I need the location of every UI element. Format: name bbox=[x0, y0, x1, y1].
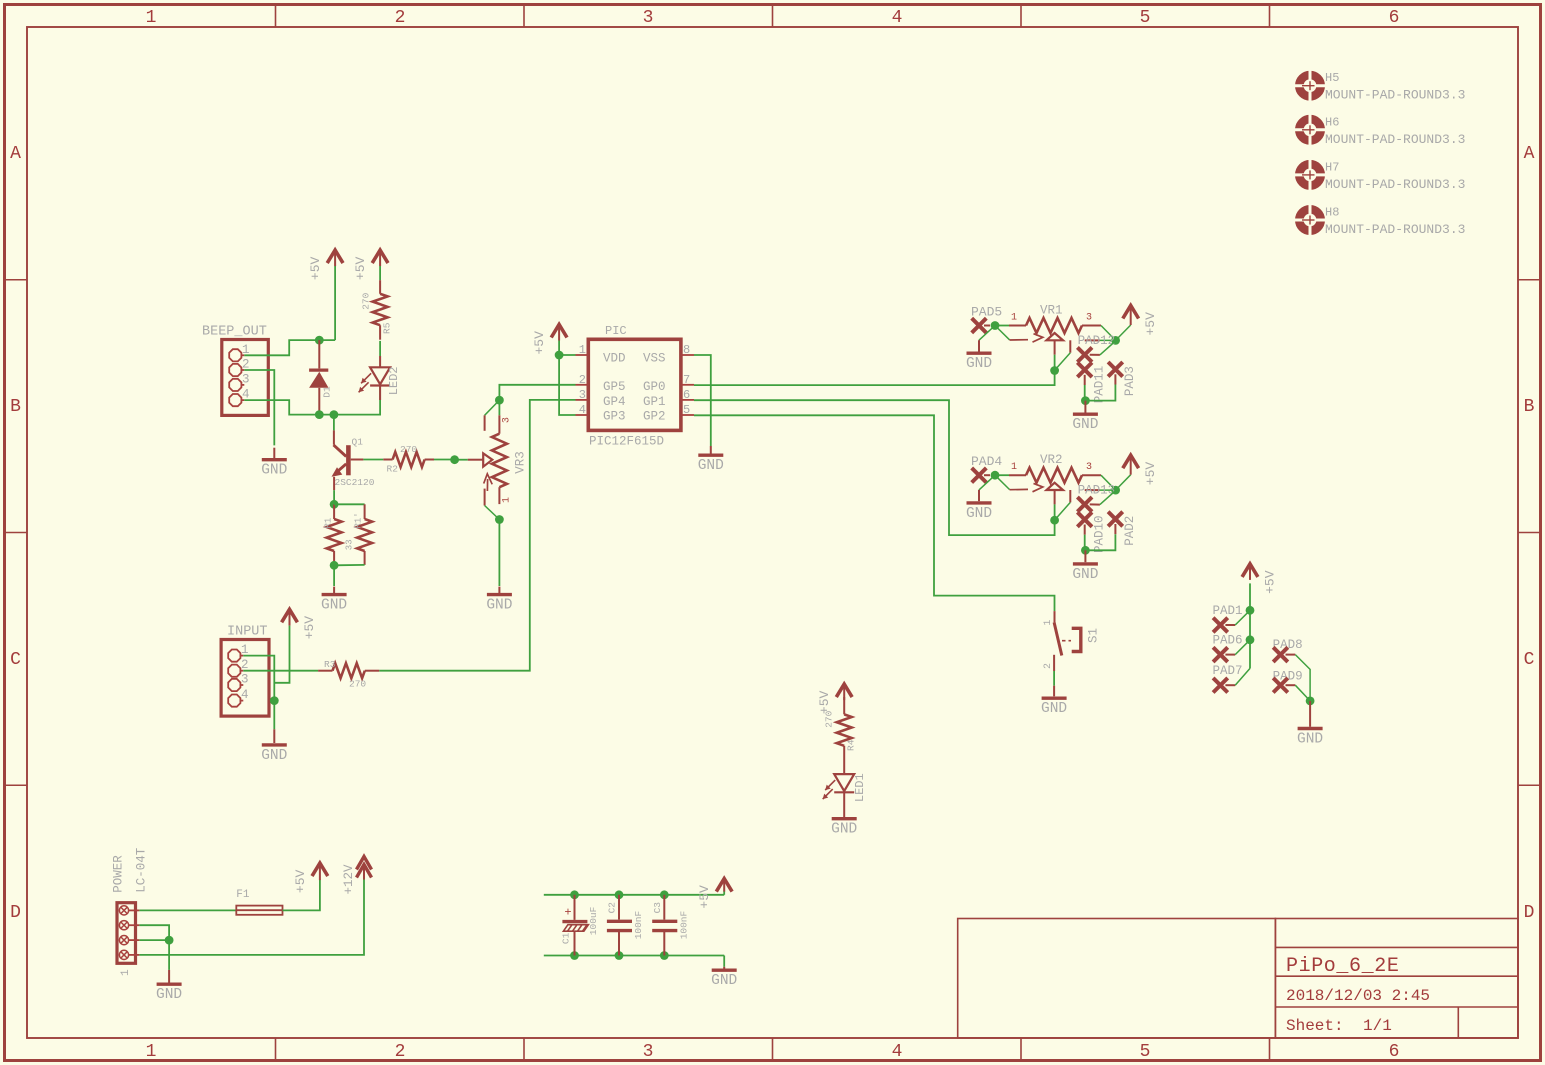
pad PAD1 X bbox=[1213, 618, 1228, 633]
svg-text:2018/12/03 2:45: 2018/12/03 2:45 bbox=[1286, 987, 1430, 1005]
wire +5V stem to D1 node bbox=[334, 266, 336, 340]
svg-text:270: 270 bbox=[361, 292, 372, 309]
svg-text:270: 270 bbox=[400, 444, 417, 455]
svg-text:270: 270 bbox=[824, 710, 835, 727]
pad PAD10 X bbox=[1077, 512, 1092, 527]
supply +5V arrow at PAD1 bbox=[1242, 564, 1258, 580]
fuse F1 bbox=[236, 906, 282, 915]
wire VR1 pin3 to +5V bbox=[1101, 326, 1116, 341]
wire POWER to GND bbox=[168, 940, 170, 970]
wire Q1 emitter bbox=[333, 477, 335, 490]
supply +5V arrow at caps bbox=[723, 891, 725, 895]
ground GND under R1 bbox=[333, 587, 335, 595]
svg-text:4: 4 bbox=[579, 403, 586, 417]
ground GND under VR3 bbox=[498, 587, 500, 595]
junction collector node bbox=[330, 410, 339, 419]
svg-text:MOUNT-PAD-ROUND3.3: MOUNT-PAD-ROUND3.3 bbox=[1325, 132, 1465, 147]
svg-text:3: 3 bbox=[1086, 462, 1092, 473]
LED LED1 bbox=[834, 774, 854, 792]
resistor R3 270 bbox=[318, 670, 332, 672]
svg-text:C3: C3 bbox=[652, 902, 663, 914]
svg-text:R5: R5 bbox=[382, 322, 393, 334]
svg-text:MOUNT-PAD-ROUND3.3: MOUNT-PAD-ROUND3.3 bbox=[1325, 222, 1465, 237]
wire R4 to LED1 bbox=[843, 746, 845, 774]
wire POWER pin4 to +12V bbox=[139, 880, 364, 955]
junction VR3 bottom bbox=[495, 515, 504, 524]
pad PAD4 X bbox=[972, 468, 987, 483]
svg-text:2: 2 bbox=[395, 1042, 406, 1062]
svg-text:VR3: VR3 bbox=[514, 451, 528, 474]
supply +5V arrow at R5 bbox=[372, 250, 388, 266]
svg-text:+5V: +5V bbox=[1263, 570, 1278, 594]
svg-text:D1: D1 bbox=[322, 386, 333, 398]
junction VR1 wiper bbox=[1050, 366, 1059, 375]
junction R1 top bbox=[330, 500, 339, 509]
svg-text:GP1: GP1 bbox=[643, 395, 666, 409]
ground GND at caps bbox=[723, 956, 725, 967]
svg-text:5: 5 bbox=[1140, 1042, 1151, 1062]
ground GND under INPUT bbox=[262, 743, 287, 746]
svg-text:GND: GND bbox=[966, 506, 992, 522]
svg-text:+5V: +5V bbox=[302, 616, 317, 640]
svg-text:1: 1 bbox=[146, 8, 157, 28]
svg-text:5: 5 bbox=[1140, 8, 1151, 28]
pad PAD11 X bbox=[1077, 363, 1092, 378]
svg-text:GND: GND bbox=[1072, 567, 1098, 583]
svg-text:B: B bbox=[1524, 397, 1535, 417]
ground GND under PAD4 bbox=[979, 475, 995, 490]
svg-text:GND: GND bbox=[698, 458, 724, 474]
svg-text:PAD10: PAD10 bbox=[1093, 515, 1107, 553]
junction PAD4 bbox=[991, 471, 1000, 480]
svg-text:VDD: VDD bbox=[603, 352, 626, 366]
svg-text:R1: R1 bbox=[324, 518, 334, 529]
pad PAD5 X bbox=[972, 318, 987, 333]
pad PAD2 X bbox=[1108, 512, 1123, 527]
wire S1 pin2 to GND bbox=[1053, 655, 1055, 671]
wire VSS pin8 to GND bbox=[694, 355, 711, 446]
wire VDD node to GP3 pin4 bbox=[559, 355, 575, 415]
svg-text:3: 3 bbox=[579, 388, 586, 402]
svg-text:PIC: PIC bbox=[605, 324, 627, 338]
svg-text:1/1: 1/1 bbox=[1363, 1017, 1392, 1035]
svg-text:7: 7 bbox=[683, 373, 690, 387]
resistor R5 270 bbox=[379, 280, 381, 294]
trimmer VR1 bbox=[995, 325, 1009, 327]
svg-text:R4: R4 bbox=[846, 739, 857, 751]
connector BEEP_OUT bbox=[222, 340, 268, 416]
svg-text:H8: H8 bbox=[1325, 206, 1339, 220]
svg-text:PAD11: PAD11 bbox=[1093, 366, 1107, 404]
wire VR3 to GND bbox=[498, 520, 500, 587]
title block bbox=[958, 919, 1518, 1038]
svg-text:4: 4 bbox=[241, 688, 249, 702]
svg-text:+5V: +5V bbox=[697, 885, 712, 909]
junction node D1 bottom bbox=[315, 410, 324, 419]
junction VR3 top bbox=[495, 396, 504, 405]
capacitor C1 100uF polarized bbox=[574, 895, 576, 920]
svg-text:4: 4 bbox=[892, 1042, 903, 1062]
svg-text:100nF: 100nF bbox=[633, 910, 644, 939]
wire +5V rail top bbox=[544, 894, 724, 896]
svg-text:+5V: +5V bbox=[817, 690, 832, 714]
svg-text:PAD6: PAD6 bbox=[1213, 634, 1243, 648]
VR3 adjust arrow bbox=[484, 474, 493, 491]
resistor R1 33 bbox=[333, 504, 335, 519]
svg-text:+5V: +5V bbox=[308, 256, 323, 280]
svg-text:+5V: +5V bbox=[353, 256, 368, 280]
IC PIC PIC12F615D bbox=[588, 339, 681, 430]
ground GND under PAD5 bbox=[979, 326, 995, 341]
supply +5V arrow VR2 bbox=[1123, 455, 1139, 475]
wire BEEP_OUT pin1 to +5V/D1 bbox=[244, 340, 335, 355]
ground GND under POWER bbox=[157, 983, 182, 986]
wire +5V to R5 bbox=[379, 266, 381, 280]
VR2 adjust arrow bbox=[995, 475, 1010, 489]
svg-text:GP5: GP5 bbox=[603, 380, 626, 394]
svg-text:GND: GND bbox=[321, 598, 347, 614]
wire R5 to LED2 bbox=[379, 341, 381, 356]
wire POWER pin2/pin3 junction bbox=[139, 925, 169, 940]
pad PAD11 X bbox=[1077, 347, 1092, 362]
junction node D1 top bbox=[315, 336, 324, 345]
svg-text:+5V: +5V bbox=[1143, 312, 1158, 336]
svg-text:2: 2 bbox=[579, 373, 586, 387]
svg-text:H7: H7 bbox=[1325, 160, 1339, 174]
wire bottom net BEEP_OUT pin4 bbox=[244, 387, 380, 415]
ground GND under PAD11 bbox=[1084, 401, 1086, 413]
wire +5V to VDD pin1 bbox=[558, 341, 560, 356]
svg-text:270: 270 bbox=[349, 679, 366, 690]
svg-text:+5V: +5V bbox=[532, 331, 547, 355]
wire R1 to GND bbox=[333, 565, 335, 586]
svg-text:INPUT: INPUT bbox=[227, 625, 268, 640]
svg-text:A: A bbox=[1524, 144, 1535, 164]
ground GND under VSS bbox=[698, 454, 723, 457]
svg-text:100nF: 100nF bbox=[678, 910, 689, 939]
pad PAD13 line bbox=[1085, 489, 1100, 491]
svg-text:1: 1 bbox=[1043, 620, 1054, 626]
svg-text:C1: C1 bbox=[561, 932, 572, 944]
svg-text:GP2: GP2 bbox=[643, 410, 666, 424]
wire INPUT pin2 to R3 bbox=[243, 670, 318, 672]
junction PAD1 bbox=[1246, 606, 1255, 615]
supply +5V arrow VR1 bbox=[1123, 306, 1139, 326]
svg-text:+5V: +5V bbox=[293, 869, 308, 893]
resistor R1' parallel bbox=[334, 503, 365, 505]
junction VDD bbox=[555, 351, 564, 360]
svg-text:3: 3 bbox=[643, 8, 654, 28]
svg-text:2: 2 bbox=[395, 8, 406, 28]
svg-text:LED1: LED1 bbox=[853, 773, 867, 802]
IC pin stubs bbox=[576, 355, 695, 415]
svg-text:GND: GND bbox=[156, 987, 182, 1003]
ground GND under S1 bbox=[1042, 697, 1067, 700]
mount pad H8 bbox=[1294, 204, 1326, 236]
svg-text:GP0: GP0 bbox=[643, 380, 666, 394]
svg-text:R3: R3 bbox=[324, 659, 336, 670]
svg-text:4: 4 bbox=[892, 8, 903, 28]
mount pad H5 bbox=[1294, 70, 1326, 102]
svg-text:5: 5 bbox=[683, 403, 690, 417]
svg-text:D: D bbox=[10, 903, 21, 923]
svg-text:3: 3 bbox=[502, 417, 513, 423]
svg-text:1: 1 bbox=[502, 497, 513, 503]
supply +5V arrow above INPUT bbox=[282, 609, 298, 625]
junction INPUT pin4 bbox=[270, 696, 279, 705]
svg-text:LED2: LED2 bbox=[387, 366, 401, 395]
svg-text:C: C bbox=[10, 650, 21, 670]
svg-text:2SC2120: 2SC2120 bbox=[335, 477, 375, 488]
svg-text:Q1: Q1 bbox=[352, 436, 364, 447]
VR2 pin2 aux line bbox=[1069, 490, 1071, 502]
wire GP2 pin5 to S1 bbox=[694, 415, 1055, 611]
wire GP4 pin3 to R3 bbox=[379, 400, 575, 671]
VR3 pin1 aux line bbox=[484, 489, 486, 506]
wire R2 to VR3 wiper bbox=[434, 459, 455, 461]
switch S1 bbox=[1054, 611, 1056, 622]
svg-text:D: D bbox=[1524, 903, 1535, 923]
svg-text:MOUNT-PAD-ROUND3.3: MOUNT-PAD-ROUND3.3 bbox=[1325, 88, 1465, 103]
junction VR2 +5V node bbox=[1111, 486, 1120, 495]
svg-text:1: 1 bbox=[579, 343, 586, 357]
wire GP0 pin7 to VR1 wiper bbox=[694, 371, 1055, 386]
svg-text:+: + bbox=[564, 906, 571, 920]
svg-text:PAD2: PAD2 bbox=[1123, 516, 1137, 546]
wire F1 to +5V bbox=[283, 880, 320, 911]
svg-text:A: A bbox=[10, 144, 21, 164]
transistor Q1 2SC2120 bbox=[333, 415, 335, 431]
VR3 wiper triangle bbox=[468, 459, 484, 461]
connector POWER LC-04T bbox=[117, 903, 136, 964]
svg-text:33: 33 bbox=[345, 539, 355, 550]
junction PAD5 bbox=[991, 321, 1000, 330]
resistor R4 270 bbox=[843, 697, 845, 714]
mount pad H6 bbox=[1294, 114, 1326, 146]
supply +5V arrow at VDD bbox=[551, 325, 567, 341]
svg-text:R2: R2 bbox=[387, 464, 399, 475]
svg-text:GND: GND bbox=[1041, 701, 1067, 717]
pad PAD10 X bbox=[1077, 497, 1092, 512]
svg-text:GND: GND bbox=[1072, 417, 1098, 433]
diode D1 bbox=[318, 340, 320, 368]
svg-text:F1: F1 bbox=[236, 889, 250, 901]
capacitor C3 100nF bbox=[663, 895, 665, 920]
supply +5V arrow at R4 bbox=[836, 684, 852, 700]
svg-text:Sheet:: Sheet: bbox=[1286, 1017, 1344, 1035]
ground GND under PAD9 bbox=[1309, 701, 1311, 727]
pad PAD7 X bbox=[1249, 640, 1251, 669]
svg-text:3: 3 bbox=[1086, 313, 1092, 324]
wire INPUT pin1 bbox=[243, 656, 274, 701]
svg-text:GND: GND bbox=[486, 598, 512, 614]
wire POWER pin1 to fuse F1 bbox=[139, 909, 236, 911]
VR1 pin2 aux line bbox=[1069, 340, 1071, 352]
wire +5V branch to INPUT pin4 node bbox=[274, 626, 289, 683]
svg-text:PAD5: PAD5 bbox=[971, 305, 1002, 320]
connector INPUT bbox=[221, 640, 269, 717]
svg-text:GND: GND bbox=[261, 463, 287, 479]
svg-text:MOUNT-PAD-ROUND3.3: MOUNT-PAD-ROUND3.3 bbox=[1325, 177, 1465, 192]
wire BEEP_OUT pin2 to GND bbox=[244, 370, 274, 445]
svg-text:LC-04T: LC-04T bbox=[135, 847, 149, 893]
junction VR1 +5V node bbox=[1111, 336, 1120, 345]
svg-text:+12V: +12V bbox=[342, 864, 356, 895]
svg-text:GND: GND bbox=[966, 356, 992, 372]
svg-text:VSS: VSS bbox=[643, 352, 666, 366]
junction PAD8/9 GND bbox=[1306, 697, 1315, 706]
svg-text:PIC12F615D: PIC12F615D bbox=[589, 435, 664, 449]
svg-text:POWER: POWER bbox=[112, 855, 126, 893]
wire GND rail bottom bbox=[544, 955, 724, 957]
junction PAD10 GND node bbox=[1081, 546, 1090, 555]
svg-text:GND: GND bbox=[1297, 732, 1323, 748]
svg-text:GND: GND bbox=[261, 748, 287, 764]
svg-text:1: 1 bbox=[1011, 313, 1017, 324]
mount pad H7 bbox=[1294, 159, 1326, 191]
svg-text:3: 3 bbox=[241, 673, 249, 687]
wire GP5 pin2 to VR3 top bbox=[499, 385, 575, 400]
svg-text:VR1: VR1 bbox=[1040, 304, 1063, 318]
ground GND under BEEP_OUT bbox=[273, 448, 275, 460]
junction POWER pin3 bbox=[165, 936, 174, 945]
junctions cap rails bbox=[570, 890, 579, 899]
svg-text:PAD3: PAD3 bbox=[1123, 366, 1137, 396]
junction PAD11 GND node bbox=[1081, 396, 1090, 405]
pad PAD12 line bbox=[1085, 339, 1100, 341]
wire GP1 pin6 to VR2 wiper bbox=[694, 400, 1055, 535]
svg-text:3: 3 bbox=[242, 372, 250, 386]
svg-text:S1: S1 bbox=[1087, 628, 1101, 643]
svg-text:PiPo_6_2E: PiPo_6_2E bbox=[1286, 955, 1399, 978]
wire +5V to PAD1 node bbox=[1249, 583, 1251, 610]
svg-text:PAD7: PAD7 bbox=[1213, 664, 1243, 678]
svg-text:C: C bbox=[1524, 650, 1535, 670]
svg-text:H5: H5 bbox=[1325, 71, 1339, 85]
svg-text:1: 1 bbox=[146, 1042, 157, 1062]
supply +5V arrow at D1 bbox=[327, 250, 343, 266]
junction PAD6 bbox=[1249, 610, 1251, 640]
VR1 adjust arrow bbox=[995, 326, 1010, 340]
svg-text:GP3: GP3 bbox=[603, 410, 626, 424]
svg-text:GP4: GP4 bbox=[603, 395, 626, 409]
svg-text:C2: C2 bbox=[607, 902, 618, 914]
svg-text:GND: GND bbox=[711, 973, 737, 989]
svg-text:PAD1: PAD1 bbox=[1213, 604, 1243, 618]
trimmer VR2 bbox=[995, 474, 1009, 476]
VR1 wiper bbox=[1047, 333, 1064, 340]
VR3 pin2 line top bbox=[485, 400, 500, 415]
wire VR2 pin3 to +5V bbox=[1101, 475, 1116, 490]
svg-text:8: 8 bbox=[683, 343, 690, 357]
ground GND under PAD10 bbox=[1084, 550, 1086, 562]
svg-text:100uF: 100uF bbox=[588, 906, 599, 935]
pad PAD3 X bbox=[1108, 362, 1123, 377]
wire INPUT pin4 to GND bbox=[273, 701, 275, 730]
svg-text:+5V: +5V bbox=[1143, 462, 1158, 486]
svg-text:1: 1 bbox=[1011, 462, 1017, 473]
LED LED2 bbox=[370, 367, 390, 385]
svg-text:PAD4: PAD4 bbox=[971, 454, 1002, 469]
svg-text:3: 3 bbox=[643, 1042, 654, 1062]
svg-text:6: 6 bbox=[1389, 8, 1400, 28]
VR2 wiper bbox=[1047, 483, 1064, 490]
junction R1 bottom bbox=[330, 561, 339, 570]
svg-text:H6: H6 bbox=[1325, 115, 1339, 129]
wire VR3 wiper to R2 node bbox=[450, 455, 459, 464]
svg-text:6: 6 bbox=[683, 388, 690, 402]
svg-text:1: 1 bbox=[120, 969, 132, 976]
ground GND under LED1 bbox=[832, 817, 857, 820]
junction VR2 wiper bbox=[1050, 516, 1059, 525]
svg-text:GND: GND bbox=[831, 822, 857, 838]
svg-text:6: 6 bbox=[1389, 1042, 1400, 1062]
VR3 body bbox=[498, 400, 500, 415]
svg-text:R1': R1' bbox=[354, 512, 364, 528]
capacitor C2 100nF bbox=[618, 895, 620, 920]
svg-text:VR2: VR2 bbox=[1040, 453, 1063, 467]
svg-text:2: 2 bbox=[1043, 663, 1054, 669]
supply +12V arrow bbox=[357, 857, 372, 880]
wire Q1 base to R2 bbox=[351, 459, 364, 461]
svg-text:BEEP_OUT: BEEP_OUT bbox=[202, 325, 267, 340]
supply +5V arrow at POWER bbox=[312, 863, 328, 880]
resistor R2 270 bbox=[383, 459, 392, 461]
pad PAD6 X bbox=[1213, 647, 1228, 662]
svg-text:B: B bbox=[10, 397, 21, 417]
